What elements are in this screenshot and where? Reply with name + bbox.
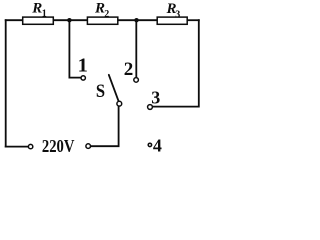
svg-text:R: R (31, 1, 42, 17)
svg-text:1: 1 (78, 55, 88, 77)
svg-text:2: 2 (124, 59, 134, 80)
svg-text:S: S (96, 82, 105, 102)
svg-text:3: 3 (151, 87, 160, 107)
svg-text:1: 1 (42, 9, 47, 20)
svg-text:3: 3 (175, 9, 180, 20)
svg-text:2: 2 (104, 9, 109, 20)
svg-text:220V: 220V (42, 136, 75, 156)
svg-text:4: 4 (153, 136, 162, 156)
